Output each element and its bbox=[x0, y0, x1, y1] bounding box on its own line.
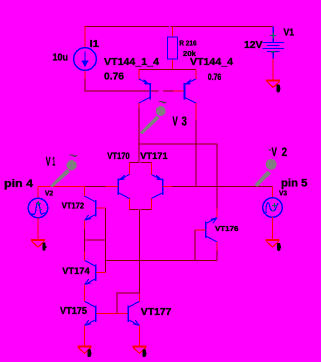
wire collector U rail bbox=[130, 209, 139, 211]
battery V1 bbox=[262, 43, 284, 59]
ground (battery) bbox=[266, 80, 280, 82]
transistor VT170 bbox=[118, 174, 129, 198]
wire V3 to ground bbox=[272, 217, 274, 239]
svg-text:VT174: VT174 bbox=[62, 266, 90, 277]
transistor VT176 bbox=[206, 218, 217, 242]
svg-text:V: V bbox=[272, 145, 277, 159]
wire I1 bottom lead bbox=[84, 70, 86, 79]
wire rail drop to I1 bbox=[84, 27, 86, 48]
ground (V2) bbox=[31, 239, 45, 241]
transistor VT144_4 bbox=[185, 79, 196, 103]
svg-text:VT176: VT176 bbox=[215, 226, 239, 233]
sine source V2 bbox=[28, 198, 47, 217]
probe V2 bbox=[255, 150, 277, 188]
wire I1 to bases bbox=[85, 79, 150, 91]
wire battery to ground bbox=[272, 59, 274, 80]
svg-text:0.76: 0.76 bbox=[104, 71, 124, 83]
wire pin4 net bbox=[38, 186, 85, 188]
wire VT176 base bbox=[195, 229, 206, 231]
svg-text:I1: I1 bbox=[90, 38, 99, 50]
svg-text:R 216: R 216 bbox=[179, 38, 196, 47]
wire top rail bbox=[85, 26, 169, 28]
wire VT144_4 collector down bbox=[195, 120, 197, 187]
svg-text:VT144_1_4: VT144_1_4 bbox=[104, 56, 159, 68]
transistor VT171 bbox=[151, 174, 162, 198]
wire base-to-base of PNP pair bbox=[151, 90, 159, 92]
wire VT172 base down to VT174 base bbox=[105, 208, 107, 272]
wire VT175 base to VT177 base bbox=[96, 313, 128, 315]
svg-text:V1: V1 bbox=[284, 27, 295, 39]
battery V1 lead top bbox=[272, 27, 274, 43]
svg-text:10u: 10u bbox=[53, 51, 69, 63]
battery minus mark bbox=[271, 51, 275, 53]
svg-text:12V: 12V bbox=[244, 39, 263, 51]
sine source V3 bbox=[263, 198, 282, 217]
wire emitter cap rail bbox=[130, 162, 139, 164]
svg-text:2: 2 bbox=[282, 145, 288, 159]
wire long output net bbox=[106, 260, 218, 262]
wire VT172 emitter down bbox=[84, 230, 86, 241]
wire emitter-base tie bbox=[85, 239, 106, 241]
wire VT171 base to pin5 bbox=[163, 186, 172, 188]
svg-text:VT172: VT172 bbox=[62, 202, 85, 211]
wire VT177 diode tie box bbox=[117, 293, 140, 314]
probe V1 bbox=[50, 155, 77, 188]
svg-text:pin 4: pin 4 bbox=[4, 178, 34, 190]
wire VT172 base bbox=[96, 207, 106, 209]
transistor VT144_1_4 bbox=[139, 79, 150, 103]
svg-text:V: V bbox=[172, 115, 178, 129]
wire VT176 base down bbox=[194, 230, 196, 261]
resistor R216 leads bbox=[171, 27, 173, 38]
svg-text:VT170: VT170 bbox=[107, 151, 130, 162]
transistor VT174 bbox=[85, 260, 96, 284]
ground (VT177) bbox=[133, 346, 147, 348]
svg-text:V2: V2 bbox=[45, 189, 53, 198]
ground 0 label bbox=[88, 349, 91, 357]
wire emitter rail bbox=[139, 68, 196, 70]
probe V3 bbox=[140, 102, 167, 135]
wire branch to VT176 emitter bbox=[139, 144, 217, 186]
svg-text:VT175: VT175 bbox=[60, 306, 87, 317]
transistor VT175 bbox=[85, 301, 96, 325]
svg-text:1: 1 bbox=[52, 155, 55, 169]
wire down to VT174 collector bbox=[84, 240, 86, 252]
svg-text:V: V bbox=[46, 155, 51, 169]
battery plus mark bbox=[270, 32, 276, 38]
svg-text:VT144_4: VT144_4 bbox=[190, 56, 233, 68]
ground (V3) bbox=[266, 239, 280, 241]
wire V2 to ground bbox=[37, 218, 39, 240]
transistor VT177 bbox=[128, 301, 139, 325]
svg-text:V3: V3 bbox=[279, 189, 287, 198]
current source I1 bbox=[74, 48, 97, 71]
sine source V2 lead bbox=[37, 187, 39, 199]
sine source V3 lead bbox=[272, 187, 274, 198]
wire VT176 collector down to output net bbox=[216, 251, 218, 261]
ground 0 label bbox=[277, 243, 280, 251]
svg-text:0.76: 0.76 bbox=[208, 72, 222, 82]
svg-text:VT171: VT171 bbox=[140, 151, 168, 162]
ground (VT175) bbox=[78, 346, 92, 348]
wire center drop bbox=[139, 210, 141, 293]
svg-text:3: 3 bbox=[182, 115, 187, 129]
transistor VT172 bbox=[85, 196, 96, 220]
ground 0 label bbox=[277, 84, 280, 92]
ground 0 label bbox=[143, 349, 146, 357]
svg-text:VT177: VT177 bbox=[141, 306, 172, 318]
ground 0 label bbox=[42, 243, 45, 251]
wire VT174 base bbox=[96, 272, 106, 274]
wire VT144_1_4 collector down (center stem) bbox=[138, 108, 140, 163]
resistor R216 bbox=[168, 37, 178, 59]
